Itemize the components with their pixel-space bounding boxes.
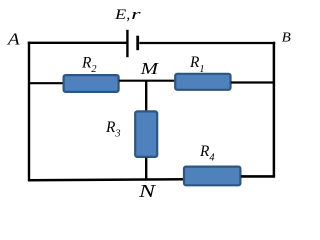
battery E,r short plate [136,36,139,51]
svg-text:R4: R4 [199,143,215,164]
wire: R3 down through node N to bottom wire [145,158,147,181]
wire: bottom segment from bottom-left corner to R4 [28,179,186,180]
svg-text:R2: R2 [81,55,97,76]
wire: left rail from A corner down to bottom-left corner [28,42,30,181]
wire: middle row, left rail to R2 [28,82,66,84]
resistor R3 [135,111,157,156]
svg-text:A: A [7,29,21,48]
wire: middle row, R1 to right rail [231,81,275,83]
svg-text:R1: R1 [189,54,205,75]
svg-text:E,r: E,r [114,7,141,23]
resistor R2 [64,75,119,92]
svg-text:B: B [282,30,292,45]
svg-text:M: M [139,59,159,78]
battery E,r long plate [126,30,128,57]
svg-text:R3: R3 [105,119,121,140]
wire: right rail from B corner down to bottom-right corner [273,42,276,178]
wire: bottom segment from R4 to bottom-right corner [241,175,275,178]
wire: top segment from battery right plate to B corner [139,42,275,44]
resistor R4 [184,167,240,186]
svg-text:N: N [138,181,157,197]
wire: top segment from A corner to battery left plate [28,42,127,44]
resistor R1 [175,74,230,90]
wire: middle row, R2 to R1 through node M [119,80,176,82]
node M junction wire down to R3 [145,81,147,114]
